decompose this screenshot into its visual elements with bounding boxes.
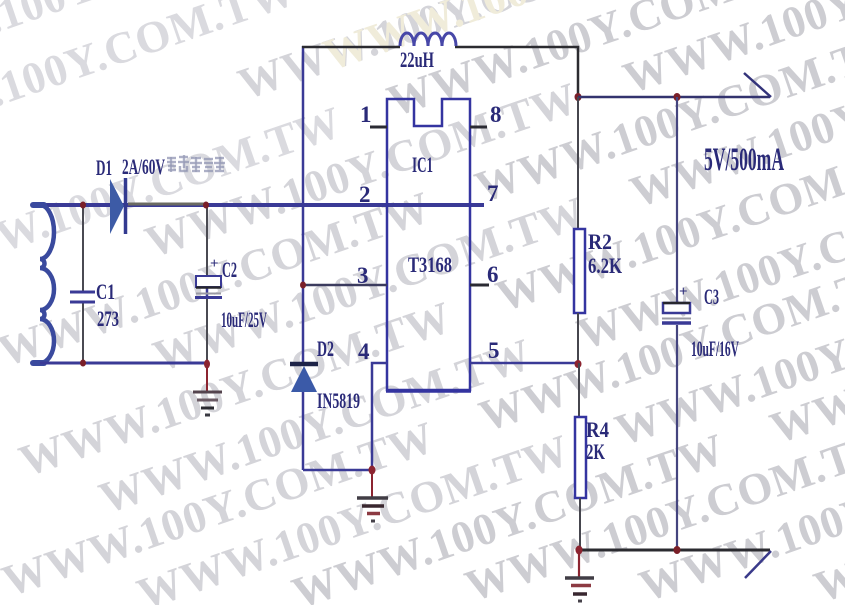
wire R2 bottom to pin5 node: [577, 313, 579, 363]
svg-text:T3168: T3168: [408, 252, 452, 277]
svg-text:IN5819: IN5819: [317, 388, 360, 413]
pin number 7: [487, 181, 499, 206]
junction dot node H (pin5 / R2 / R4): [575, 360, 582, 368]
svg-text:2K: 2K: [586, 439, 605, 464]
wire main horizontal net pin2 to pin7: [40, 204, 484, 205]
svg-text:5: 5: [488, 338, 500, 363]
pin number 1: [360, 102, 372, 127]
capacitor C3: [662, 303, 691, 323]
junction dot node A (C1 top): [80, 202, 86, 209]
output terminal arrow (5V): [744, 73, 771, 97]
svg-text:7: 7: [487, 181, 499, 206]
label + C3: [679, 284, 719, 309]
svg-text:C1: C1: [96, 279, 115, 304]
value 6.2K: [588, 253, 622, 278]
svg-text:C2: C2: [222, 257, 237, 282]
junction dot node G (top right rail left): [575, 93, 582, 101]
label D1: [96, 155, 112, 180]
ground GND2 (below D2/pin4): [357, 472, 388, 521]
pin 4 wire: [372, 363, 387, 470]
capacitor C2: [195, 207, 222, 363]
value 2K: [586, 439, 605, 464]
junction dot node E (pin3 / D2): [300, 282, 306, 289]
svg-text:+: +: [210, 256, 219, 272]
label IN5819: [317, 388, 360, 413]
capacitor C1: [70, 205, 95, 363]
pin number 4: [358, 339, 370, 364]
wire bottom-left rail: [40, 362, 207, 365]
inductor L1 winding (input coil): [33, 205, 54, 363]
pin number 6: [487, 262, 499, 287]
wire R4 bottom to rail: [579, 498, 581, 550]
wire bottom right rail: [579, 549, 770, 552]
svg-text:2A/60V: 2A/60V: [122, 154, 165, 179]
inductor 22uH: [400, 33, 456, 46]
wire C3 top feed: [676, 97, 678, 303]
resistor R4: [575, 417, 586, 498]
label schottky chinese text (blurred): [167, 155, 225, 172]
label 22uH: [400, 47, 434, 72]
junction dot node C (C1 bottom): [80, 360, 86, 367]
svg-text:IC1: IC1: [412, 152, 433, 177]
label D2: [317, 336, 334, 361]
svg-text:D2: D2: [317, 336, 334, 361]
pin 3 wire: [303, 284, 387, 287]
wire top rail to 22uH: [302, 47, 578, 97]
svg-text:C3: C3: [704, 284, 719, 309]
pin 6 stub: [470, 284, 489, 287]
resistor R2: [574, 229, 585, 313]
svg-text:273: 273: [97, 306, 119, 331]
svg-text:D1: D1: [96, 155, 112, 180]
junction dot node I (C3 top): [674, 93, 681, 101]
svg-text:5V/500mA: 5V/500mA: [704, 142, 784, 178]
wire C3 bottom to rail: [676, 325, 678, 550]
diode D2: [290, 364, 372, 470]
label 5V/500mA: [704, 142, 784, 178]
value 273: [97, 306, 119, 331]
label R2: [588, 229, 612, 254]
svg-text:1: 1: [360, 102, 372, 127]
svg-text:+: +: [679, 284, 688, 300]
wire node H to R4: [578, 363, 580, 417]
junction dot node B (C2 top): [203, 202, 209, 209]
pin 8 stub: [470, 126, 487, 129]
pin number 2: [359, 182, 371, 207]
label + C2: [210, 256, 237, 282]
label 2A/60V: [122, 154, 165, 179]
junction dot node J (R4 bottom / ground): [576, 546, 583, 555]
svg-text:6: 6: [487, 262, 499, 287]
label T3168: [408, 252, 452, 277]
pin number 5: [488, 338, 500, 363]
output terminal arrow (return): [745, 551, 771, 578]
wire left vertical (pin3 / D2 net): [302, 46, 305, 363]
IC U1 outline T3168: [386, 99, 471, 392]
label IC1: [412, 152, 433, 177]
pin number 3: [357, 263, 369, 288]
pin number 8: [490, 102, 502, 127]
junction dot node F (pin4 / ground): [369, 466, 376, 475]
ground GND1 (below C2): [193, 365, 222, 415]
svg-text:8: 8: [490, 102, 502, 127]
svg-text:22uH: 22uH: [400, 47, 434, 72]
svg-text:4: 4: [358, 339, 370, 364]
svg-text:10uF/25V: 10uF/25V: [221, 307, 267, 332]
svg-text:6.2K: 6.2K: [588, 253, 622, 278]
svg-text:3: 3: [357, 263, 369, 288]
label C1: [96, 279, 115, 304]
pin 5 wire: [470, 362, 578, 365]
value 10uF/25V: [221, 307, 267, 332]
svg-text:10uF/16V: 10uF/16V: [691, 336, 739, 361]
junction dot node D (C2 bottom / ground): [204, 360, 210, 369]
svg-text:R2: R2: [588, 229, 612, 254]
label R4: [586, 417, 609, 442]
diode D1: [110, 178, 126, 234]
svg-text:2: 2: [359, 182, 371, 207]
pin 1 stub: [370, 126, 387, 129]
value 10uF/16V: [691, 336, 739, 361]
ground GND3 (below bottom rail): [565, 552, 594, 601]
junction dot node K (C3 bottom): [674, 546, 681, 554]
wire R2 top feed: [577, 97, 579, 229]
wire top right rail: [578, 96, 770, 99]
